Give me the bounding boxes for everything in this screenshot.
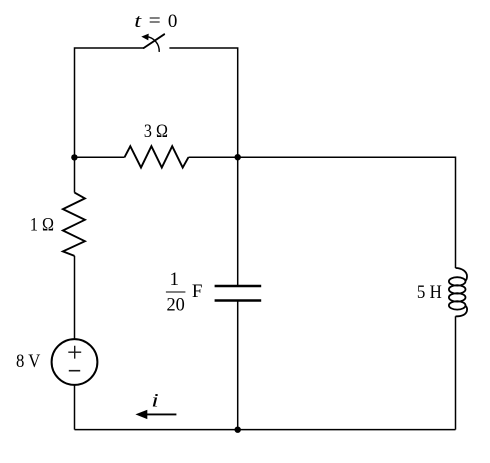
node: junction dot at left rail / 3-ohm row xyxy=(71,154,77,160)
inductor 5H: loop 3 xyxy=(449,293,466,301)
wire: voltage source bottom to bottom-left corner xyxy=(74,385,76,430)
svg-text:8 V: 8 V xyxy=(16,351,41,372)
svg-text:1 Ω: 1 Ω xyxy=(30,214,54,235)
svg-text:t: t xyxy=(134,11,142,32)
inductor 5H: bottom hook xyxy=(456,306,468,317)
svg-text:i: i xyxy=(151,390,159,411)
wire: top rail from switch right contact to top-right corner, down to node A xyxy=(169,48,237,157)
wire: top rail from switch left contact to top-left corner, down left rail to 1-ohm resistor xyxy=(75,48,144,193)
voltage source 8V: minus sign xyxy=(69,370,80,372)
svg-text:20: 20 xyxy=(166,295,184,316)
label capacitor value: fraction bar xyxy=(166,291,186,293)
capacitor 1/20 F: bottom plate xyxy=(215,299,262,301)
switch SW: opening arc xyxy=(146,37,159,52)
inductor 5H: loop 2 xyxy=(449,285,466,293)
wire: 3-ohm resistor to right rail corner, down to inductor top xyxy=(189,157,456,268)
wire: node A down to capacitor top plate xyxy=(237,157,239,286)
svg-text:0: 0 xyxy=(168,11,178,32)
current arrow i: head xyxy=(135,410,147,419)
svg-text:5 H: 5 H xyxy=(417,282,442,303)
inductor 5H: loop 4 xyxy=(449,301,466,309)
inductor 5H: loop 1 xyxy=(449,277,466,285)
wire: capacitor bottom plate down to node B xyxy=(237,301,239,430)
svg-text:=: = xyxy=(149,10,161,31)
svg-text:3 Ω: 3 Ω xyxy=(144,121,168,142)
svg-text:F: F xyxy=(192,281,203,302)
svg-text:1: 1 xyxy=(170,269,180,290)
switch SW: arrowhead of opening arc xyxy=(141,34,148,41)
wire: bottom rail from right corner through node B to bottom-left corner xyxy=(75,429,456,431)
switch SW (opens at t=0): blade xyxy=(144,34,165,48)
capacitor 1/20 F: top plate xyxy=(215,285,262,287)
resistor 1-ohm (vertical zigzag) xyxy=(63,193,85,256)
wire: node at left rail to 3-ohm resistor xyxy=(75,156,125,158)
resistor 3-ohm (horizontal zigzag) xyxy=(125,146,189,167)
wire: inductor bottom down right rail to bottom-right corner xyxy=(455,316,457,429)
node B: junction dot at capacitor branch / bottom rail xyxy=(235,427,241,433)
inductor 5H: top hook xyxy=(456,268,468,281)
voltage source 8V: circle xyxy=(52,339,98,385)
node A: junction dot at 3-ohm / capacitor branch xyxy=(235,154,241,160)
wire: 1-ohm resistor bottom to voltage source top xyxy=(74,256,76,339)
current arrow i: shaft xyxy=(147,413,177,415)
voltage source 8V: plus sign xyxy=(68,346,81,359)
